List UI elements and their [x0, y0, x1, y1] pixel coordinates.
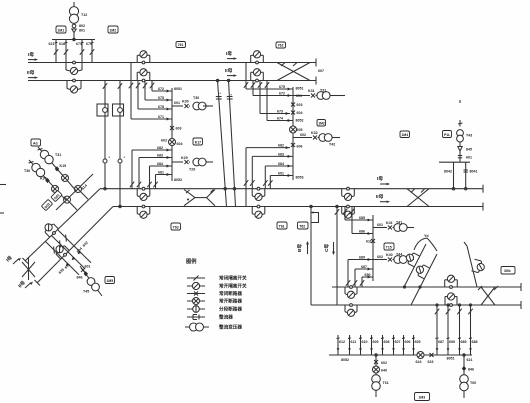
box 1M1	[56, 26, 66, 33]
transformer chain B	[29, 160, 67, 200]
bowtie tie on pair B	[478, 286, 498, 305]
svg-text:671: 671	[76, 42, 82, 46]
svg-text:8051: 8051	[296, 87, 304, 91]
svg-text:I母: I母	[226, 50, 232, 57]
drawout breaker frame	[113, 104, 124, 116]
bus II top	[28, 80, 316, 82]
branch 691	[268, 174, 293, 189]
branch 686	[350, 207, 373, 236]
incomer breaker between buses	[73, 61, 76, 64]
feeder bay wire	[118, 81, 122, 207]
transformer branch T44	[373, 256, 414, 264]
svg-text:762: 762	[278, 44, 284, 48]
drop 670	[90, 40, 94, 63]
brace over G1 G2	[414, 238, 427, 250]
svg-text:II母: II母	[376, 193, 384, 200]
feeder riser	[171, 88, 173, 181]
svg-text:611: 611	[366, 240, 372, 244]
svg-text:T15: T15	[386, 245, 392, 249]
svg-text:690: 690	[449, 340, 455, 344]
svg-text:606: 606	[297, 145, 303, 149]
branch 675	[145, 99, 172, 102]
diagonal bus D1	[25, 189, 100, 261]
svg-text:K32: K32	[311, 131, 318, 135]
svg-text:3Gb: 3Gb	[504, 269, 511, 273]
svg-text:Ad: Ad	[33, 141, 38, 145]
bus I top	[28, 62, 316, 64]
breaker 605	[290, 126, 297, 133]
svg-text:1M2: 1M2	[110, 28, 117, 32]
box K17	[193, 138, 203, 145]
svg-text:601: 601	[377, 223, 383, 227]
svg-text:T30: T30	[24, 169, 30, 173]
svg-text:673: 673	[277, 110, 283, 114]
svg-text:T63: T63	[173, 225, 179, 229]
svg-text:688: 688	[472, 340, 478, 344]
transformer T12	[69, 7, 78, 24]
svg-text:846: 846	[77, 276, 83, 280]
svg-text:8052: 8052	[296, 119, 304, 123]
svg-text:761: 761	[178, 43, 184, 47]
legend row breaker open	[187, 298, 205, 305]
svg-text:612: 612	[339, 340, 345, 344]
svg-text:684: 684	[157, 162, 163, 166]
scan artifact dash	[0, 212, 4, 214]
svg-text:T44: T44	[396, 253, 402, 257]
svg-text:K19: K19	[60, 164, 67, 168]
svg-text:II母: II母	[27, 69, 35, 76]
svg-text:623: 623	[428, 360, 434, 364]
svg-text:I母: I母	[28, 51, 34, 58]
breaker 623	[430, 353, 434, 357]
legend row section breaker	[187, 306, 205, 313]
svg-text:802: 802	[79, 24, 85, 28]
scan artifact dash	[0, 184, 6, 186]
svg-text:604: 604	[177, 142, 183, 146]
svg-text:686: 686	[359, 230, 365, 234]
svg-text:1M2: 1M2	[318, 122, 325, 126]
rectifier transformer bay T60	[460, 355, 469, 398]
transformer T43	[457, 130, 464, 142]
rotated box RB2	[41, 199, 52, 210]
coupler B2	[445, 275, 458, 288]
feeder f3 from D1	[46, 242, 79, 275]
tall drop 687	[435, 305, 439, 355]
transformer branch T41	[373, 224, 414, 232]
wire	[73, 2, 75, 7]
dropper to C bus	[335, 207, 339, 306]
bus-tie X section top right	[277, 63, 310, 81]
svg-text:8051: 8051	[447, 357, 455, 361]
svg-text:T60: T60	[470, 381, 476, 385]
svg-text:607: 607	[318, 69, 324, 73]
tall drop 689	[457, 305, 461, 355]
disconnect 845	[458, 147, 462, 152]
svg-text:601: 601	[466, 156, 472, 160]
svg-text:整流器: 整流器	[219, 314, 233, 321]
svg-text:682: 682	[278, 144, 284, 148]
breaker G1b	[64, 196, 78, 210]
svg-text:603: 603	[176, 127, 182, 131]
branch 684	[263, 165, 293, 189]
svg-text:T31: T31	[55, 153, 61, 157]
svg-text:608: 608	[384, 340, 390, 344]
wire	[459, 100, 461, 103]
svg-text:T12: T12	[81, 13, 87, 17]
svg-text:671: 671	[158, 115, 164, 119]
transformer branch T32	[293, 134, 340, 142]
svg-text:K41: K41	[386, 221, 393, 225]
branch 687	[353, 268, 373, 288]
svg-text:T43: T43	[466, 134, 472, 138]
drop 671	[80, 40, 84, 71]
branch 683	[137, 156, 172, 189]
svg-text:621: 621	[49, 42, 55, 46]
stub 605	[412, 335, 415, 355]
stub 609	[370, 335, 373, 355]
svg-text:801: 801	[79, 29, 85, 33]
svg-text:675: 675	[279, 85, 285, 89]
drop 621	[54, 40, 58, 63]
svg-text:690: 690	[365, 273, 371, 277]
svg-text:603: 603	[297, 103, 303, 107]
bus coupler left	[137, 51, 150, 64]
svg-text:T29: T29	[189, 168, 195, 172]
wire 8042	[453, 162, 455, 189]
bowtie on diagonal buses	[22, 257, 35, 280]
legend row isolator closed	[187, 276, 205, 281]
svg-text:T42: T42	[329, 143, 335, 147]
svg-text:846: 846	[468, 368, 474, 372]
svg-text:683: 683	[157, 154, 163, 158]
branch 689	[346, 258, 373, 287]
svg-text:C母: C母	[323, 244, 330, 252]
branch 672	[152, 90, 172, 93]
rotated box RB1	[51, 190, 62, 201]
rectifier transformer bay T61	[372, 355, 381, 397]
svg-text:K30: K30	[182, 100, 189, 104]
breaker 603	[291, 103, 295, 107]
bus bottom	[329, 354, 472, 356]
branch 675	[246, 88, 293, 91]
box P1L	[443, 131, 452, 138]
box T63	[171, 223, 181, 230]
winding symbol	[72, 24, 76, 28]
svg-text:常闭断路器: 常闭断路器	[219, 290, 242, 297]
branch 678	[138, 108, 172, 111]
svg-text:602: 602	[381, 361, 387, 365]
branch 674	[267, 119, 293, 122]
svg-text:687: 687	[361, 265, 367, 269]
box T15	[384, 243, 394, 250]
svg-text:689: 689	[359, 256, 365, 260]
breaker 624	[417, 352, 424, 359]
svg-text:604: 604	[297, 111, 303, 115]
branch 684	[147, 165, 172, 189]
svg-text:图例: 图例	[186, 257, 196, 265]
rotated coupler on D2	[53, 242, 71, 260]
branch 682	[130, 149, 172, 189]
breaker 606	[291, 143, 295, 147]
svg-text:常开断路器: 常开断路器	[219, 298, 242, 305]
coupler B1	[345, 286, 357, 299]
svg-text:602: 602	[300, 133, 306, 137]
box 1M3	[415, 393, 430, 401]
stub 607	[392, 335, 395, 355]
svg-text:1M3: 1M3	[419, 396, 426, 400]
svg-text:8042: 8042	[444, 170, 452, 174]
box 761 top mid	[176, 42, 186, 48]
bus end ticks	[520, 283, 522, 291]
svg-text:K31: K31	[308, 89, 315, 93]
svg-text:672: 672	[279, 92, 285, 96]
svg-text:1M4: 1M4	[402, 133, 409, 137]
header bar	[52, 39, 95, 41]
svg-text:K29: K29	[181, 156, 188, 160]
generator branch G1 diagonal	[404, 244, 426, 287]
bus IIB	[311, 304, 521, 306]
drawout breaker frame	[97, 104, 108, 116]
svg-text:T61: T61	[383, 381, 389, 385]
svg-text:607: 607	[395, 340, 401, 344]
bus end ticks	[482, 185, 484, 193]
svg-text:605: 605	[415, 340, 421, 344]
svg-text:常闭隔离开关: 常闭隔离开关	[219, 275, 247, 282]
wire L2	[229, 81, 236, 207]
bus end ticks	[315, 59, 317, 67]
box 3Gb	[501, 267, 515, 275]
svg-text:681: 681	[158, 171, 164, 175]
wire 8041	[464, 162, 468, 189]
svg-text:670: 670	[86, 42, 92, 46]
svg-text:611: 611	[351, 340, 357, 344]
svg-text:8052: 8052	[174, 178, 182, 182]
legend row breaker closed	[187, 292, 205, 296]
transformer chain A	[38, 147, 77, 191]
breaker 602/604	[169, 139, 176, 146]
legend row isolator open	[187, 282, 205, 289]
coupler A1	[137, 187, 150, 200]
wire	[459, 142, 461, 147]
svg-text:T62: T62	[299, 224, 305, 228]
legend row rectifier	[187, 315, 205, 320]
bus IIA	[113, 206, 483, 208]
svg-text:675: 675	[158, 96, 164, 100]
bus IA	[100, 188, 483, 190]
svg-text:8051: 8051	[174, 87, 182, 91]
svg-text:610: 610	[362, 340, 368, 344]
generator branch G2 diagonal	[411, 254, 437, 305]
svg-text:845: 845	[466, 148, 472, 152]
D2 end tick	[35, 280, 41, 286]
stub 608	[381, 335, 384, 355]
svg-text:687: 687	[438, 340, 444, 344]
svg-text:T45: T45	[83, 290, 89, 294]
svg-text:682: 682	[157, 146, 163, 150]
svg-text:1M1: 1M1	[58, 28, 65, 32]
svg-text:T61: T61	[279, 224, 285, 228]
svg-text:K30: K30	[40, 177, 47, 181]
svg-text:689: 689	[461, 340, 467, 344]
transformer branch T29	[172, 158, 213, 166]
tall drop 688	[468, 305, 472, 355]
svg-text:分段断路器: 分段断路器	[219, 306, 242, 313]
box 762 top right	[276, 42, 286, 48]
svg-text:609: 609	[373, 340, 379, 344]
box 1M2 small	[317, 120, 326, 127]
coupler A3	[342, 187, 355, 200]
branch 681	[153, 173, 172, 189]
svg-text:I母: I母	[377, 175, 383, 182]
svg-text:K17: K17	[195, 140, 201, 144]
svg-text:602: 602	[377, 255, 383, 259]
svg-text:601: 601	[296, 94, 302, 98]
stub 612	[337, 335, 340, 355]
svg-text:8041: 8041	[470, 170, 478, 174]
box Ad	[31, 139, 41, 146]
rotated coupler on D1	[42, 221, 60, 239]
svg-text:K40: K40	[386, 253, 393, 257]
transformer branch T30	[172, 102, 213, 110]
svg-text:691: 691	[278, 172, 284, 176]
box 1M5	[105, 277, 115, 284]
wire	[73, 33, 75, 40]
svg-text:606: 606	[405, 340, 411, 344]
stub 606	[402, 335, 405, 355]
svg-text:601: 601	[174, 101, 180, 105]
svg-text:1M5: 1M5	[107, 279, 114, 283]
svg-text:602: 602	[161, 139, 167, 143]
svg-text:整流变压器: 整流变压器	[219, 324, 242, 331]
svg-text:685: 685	[359, 216, 365, 220]
svg-text:Yd: Yd	[424, 234, 429, 238]
bowtie tie on pair A right	[407, 189, 429, 207]
svg-text:常开隔离开关: 常开隔离开关	[219, 283, 247, 290]
svg-text:601: 601	[85, 265, 91, 269]
svg-text:624: 624	[416, 360, 422, 364]
feeder f2 from D1	[52, 236, 85, 269]
svg-text:640: 640	[381, 369, 387, 373]
CT circle	[103, 159, 107, 163]
dropper to B bus	[310, 207, 312, 306]
coupler A2	[252, 187, 265, 200]
svg-text:T41: T41	[396, 221, 402, 225]
svg-text:8052: 8052	[341, 358, 349, 362]
CT circle	[118, 159, 122, 163]
wire L1	[218, 81, 227, 207]
branch 682	[244, 146, 290, 206]
bus IB	[332, 286, 521, 288]
branch 673	[260, 112, 290, 115]
box 1M4	[400, 131, 410, 138]
branch 683	[250, 155, 293, 189]
box T61	[277, 222, 287, 229]
legend row rectifier transformer	[185, 323, 209, 331]
switch drops from bus II	[150, 81, 154, 92]
breaker 604	[291, 111, 295, 115]
incomer breaker below bus II	[73, 79, 76, 82]
bus coupler right	[251, 51, 264, 64]
stub 611	[348, 335, 351, 355]
svg-text:T31: T31	[320, 89, 326, 93]
tie bar	[439, 161, 470, 163]
svg-text:621: 621	[467, 358, 473, 362]
svg-text:672: 672	[158, 87, 164, 91]
svg-text:B母: B母	[296, 244, 303, 252]
branch 672 with transformer T31	[253, 92, 345, 100]
svg-text:683: 683	[278, 152, 284, 156]
drop 618	[64, 40, 68, 71]
rectifier chain bottom	[80, 266, 102, 296]
svg-text:684: 684	[278, 162, 284, 166]
feeder f1 from D1	[58, 230, 91, 263]
diagonal bus D2	[37, 207, 113, 284]
breaker G1a	[75, 186, 89, 200]
box 1M2	[108, 26, 118, 33]
svg-text:605: 605	[297, 128, 303, 132]
bowtie tie on pair A	[184, 190, 215, 206]
feeder bay wire	[103, 81, 107, 190]
box T62	[298, 222, 309, 229]
svg-text:678: 678	[158, 105, 164, 109]
svg-text:674: 674	[277, 117, 283, 121]
generator branch G3 diagonal	[464, 242, 486, 287]
svg-text:8053: 8053	[296, 176, 304, 180]
tall drop 690	[446, 305, 450, 355]
svg-text:T30: T30	[193, 96, 199, 100]
D1 end tick	[23, 258, 29, 264]
branch 690	[360, 276, 373, 288]
svg-text:II母: II母	[225, 67, 233, 74]
breaker 611	[371, 239, 375, 243]
switch drops from bus II	[244, 63, 248, 90]
svg-text:618: 618	[59, 42, 65, 46]
breaker 603	[170, 126, 174, 130]
grid line G1	[56, 174, 93, 210]
dash mark	[203, 105, 210, 107]
feeder riser	[372, 215, 374, 281]
branch 685	[343, 207, 373, 222]
wire with ticks	[459, 151, 461, 162]
feeder riser	[292, 87, 294, 180]
branch 671	[131, 118, 172, 121]
stub 610	[359, 335, 362, 355]
bypass loop	[311, 213, 319, 223]
svg-text:P1L: P1L	[444, 133, 450, 137]
